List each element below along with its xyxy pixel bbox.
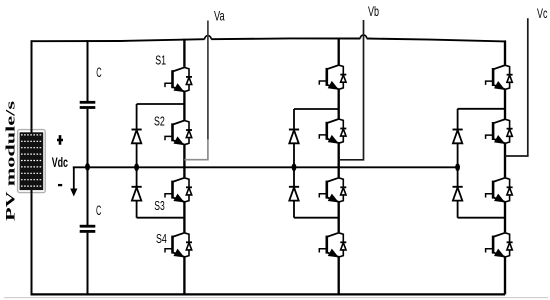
IGBT S4 leg B bbox=[319, 233, 346, 257]
IGBT S3 bbox=[165, 178, 192, 202]
label + (Vdc plus) bbox=[57, 135, 63, 145]
arrow Vdc minus reference bbox=[73, 167, 75, 189]
svg-text:Vdc: Vdc bbox=[52, 154, 68, 170]
wire Va output connector bbox=[207, 21, 209, 141]
svg-text:C: C bbox=[96, 203, 102, 218]
wire left rail bbox=[31, 40, 33, 294]
node clamp leg B bbox=[292, 163, 297, 171]
IGBT S2 bbox=[165, 120, 192, 144]
wire leg C vertical segments bbox=[504, 40, 506, 294]
capacitor C1 bbox=[80, 102, 96, 107]
wire bottom bus bbox=[31, 293, 506, 295]
label - (Vdc minus) bbox=[58, 184, 62, 186]
wire Vb output connector bbox=[339, 20, 364, 160]
svg-text:S1: S1 bbox=[155, 52, 166, 67]
IGBT S3 leg B bbox=[319, 178, 346, 202]
IGBT S1 leg B bbox=[319, 65, 346, 89]
wire capacitor rail bbox=[87, 40, 89, 294]
wire leg A vertical segments bbox=[183, 39, 185, 295]
clamp diode D2 leg A bbox=[132, 187, 142, 201]
svg-text:S4: S4 bbox=[156, 231, 167, 246]
clamp diode D6 leg C bbox=[453, 187, 463, 201]
wire top bus bbox=[32, 38, 506, 41]
IGBT S1 leg C bbox=[486, 65, 513, 89]
clamp diode D3 leg B bbox=[289, 130, 299, 144]
clamp diode D1 leg A bbox=[132, 130, 142, 144]
wire Vc output connector bbox=[505, 18, 528, 156]
svg-text:S2: S2 bbox=[154, 113, 165, 128]
IGBT S1 bbox=[165, 67, 192, 91]
wire junctions to clamp diodes leg C bbox=[458, 109, 505, 218]
wire leg B vertical segments bbox=[338, 38, 340, 295]
IGBT S4 leg C bbox=[486, 233, 513, 257]
IGBT S3 leg C bbox=[486, 178, 513, 202]
wire junctions to clamp diodes leg B bbox=[294, 109, 339, 218]
PV module panel bbox=[18, 129, 46, 193]
node clamp leg A bbox=[134, 163, 139, 171]
wire hop over Vb line bbox=[360, 35, 366, 39]
svg-text:PV module/s: PV module/s bbox=[2, 101, 17, 221]
IGBT S2 leg B bbox=[319, 119, 346, 143]
scan artifact line bottom edge bbox=[4, 297, 548, 299]
wire hop over Va line bbox=[205, 36, 212, 40]
wire middle rail (neutral) bbox=[73, 166, 458, 168]
svg-text:Vb: Vb bbox=[368, 3, 379, 19]
node neutral-cap junction bbox=[85, 163, 90, 171]
svg-text:Va: Va bbox=[214, 7, 225, 23]
svg-text:Vc: Vc bbox=[537, 5, 547, 21]
svg-text:C: C bbox=[96, 65, 102, 80]
IGBT S4 bbox=[165, 233, 192, 257]
clamp diode D5 leg C bbox=[453, 130, 463, 144]
node clamp leg C bbox=[455, 163, 460, 171]
clamp diode D4 leg B bbox=[289, 187, 299, 201]
svg-text:S3: S3 bbox=[154, 198, 165, 213]
IGBT S2 leg C bbox=[486, 119, 513, 143]
wire S1-S2 junction to clamp diodes leg A bbox=[137, 104, 185, 218]
capacitor C2 bbox=[80, 226, 96, 231]
